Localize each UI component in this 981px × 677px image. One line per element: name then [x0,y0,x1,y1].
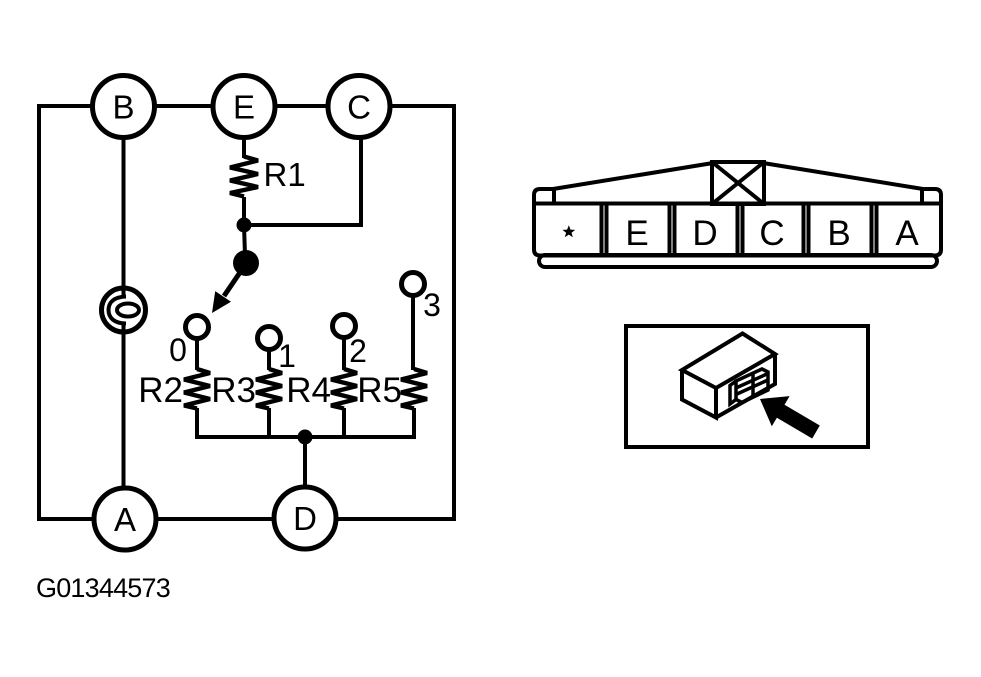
wire R2 to bus [195,408,199,439]
svg-text:E: E [233,89,255,126]
wiper arm arrow [212,268,243,313]
wire left vertical [37,104,41,521]
bus junction dot [298,430,313,445]
cavity divider D / C [738,203,743,256]
svg-text:R4: R4 [286,371,331,410]
svg-text:0: 0 [169,332,187,368]
contact 3 [402,273,441,324]
cavity divider C / B [804,203,809,256]
wire contact 3 to R5 [411,296,415,370]
wire contact 2 to R4 [342,338,346,370]
svg-text:C: C [347,89,371,126]
resistor R3 [211,369,282,410]
svg-text:3: 3 [423,287,441,323]
connector body [534,189,941,256]
contact 2 [333,315,367,370]
wire R3 to bus [267,408,271,439]
terminal C [328,76,390,138]
svg-text:R3: R3 [211,371,256,410]
connector right latch ear [920,189,924,203]
wire up to C [359,137,363,227]
connector left latch ear [552,189,556,203]
wire contact 0 to R2 [195,338,199,370]
svg-text:E: E [625,214,648,253]
wire B to E [154,104,214,108]
relay module top face [682,334,775,389]
svg-text:B: B [112,89,134,126]
resistor R2 [138,369,210,410]
resistor R5 [357,369,427,410]
node junction dot [237,218,252,233]
terminal E [213,76,275,138]
svg-text:A: A [895,214,919,253]
wire C to right edge [389,104,454,108]
svg-text:C: C [759,214,784,253]
contact 0 [169,316,208,369]
wire B down to lamp [122,137,126,297]
wire right vertical [452,104,456,521]
bus wire [197,435,416,439]
svg-text:D: D [692,214,717,253]
wire E down to R1 [242,137,246,158]
wire node down to wiper pivot [244,225,245,255]
svg-text:2: 2 [349,333,367,369]
svg-text:D: D [293,500,317,537]
terminal B [93,76,155,138]
terminal A [94,488,156,550]
connector left slope [553,163,713,189]
resistor R1 [230,156,306,197]
wire contact 1 to R3 [267,351,271,370]
wire R4 to bus [342,408,346,439]
pin * [562,225,575,237]
svg-text:R2: R2 [138,371,183,410]
resistor R4 [286,369,357,410]
connector bottom lip [539,255,937,267]
wire lamp down to A [122,322,126,489]
relay module right face [716,354,775,418]
wire R5 to bus [412,408,416,439]
svg-text:A: A [114,501,136,538]
wire R1 to node [242,197,246,225]
cavity divider * / E [602,203,607,256]
contact 1 [258,327,296,375]
wire bottom-left horizontal [39,517,95,521]
wire bus to D [303,437,307,488]
connector key box with X [712,162,764,204]
relay module left face [682,370,716,418]
svg-text:R1: R1 [264,156,306,193]
svg-text:B: B [827,214,850,253]
terminal D [274,487,336,549]
wire node to right [244,223,363,227]
wire top-left horizontal [39,104,93,108]
cavity divider E / D [670,203,675,256]
wire D to right edge [336,517,454,521]
svg-text:R5: R5 [357,371,402,410]
relay module connector block [730,369,768,404]
lamp [102,288,146,332]
svg-text:1: 1 [278,338,296,374]
connector right slope [763,163,923,189]
relay location box [626,326,868,447]
arrow pointing at relay [760,396,820,438]
wire E to C [274,104,329,108]
wiper pivot dot [233,250,259,276]
cavity divider B / A [872,203,877,256]
wire A to D [156,517,275,521]
svg-text:G01344573: G01344573 [36,573,170,603]
